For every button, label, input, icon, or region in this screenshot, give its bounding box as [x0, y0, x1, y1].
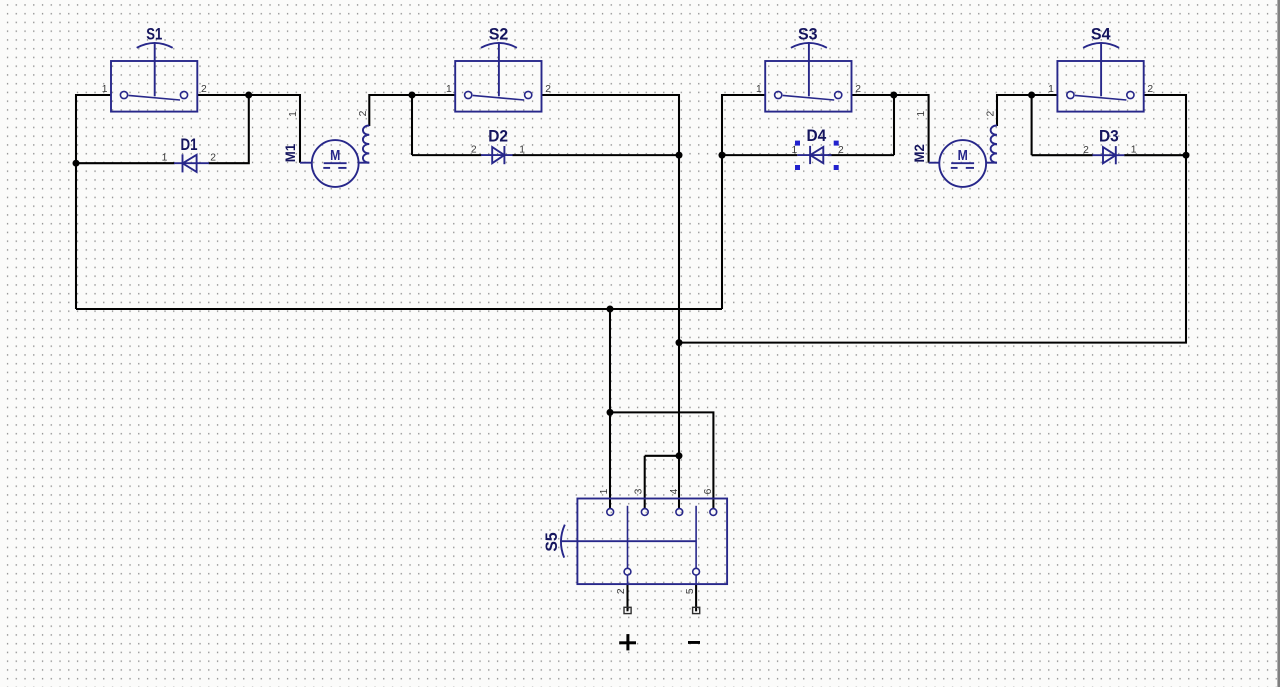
junction [607, 306, 614, 313]
junction [607, 409, 614, 416]
wire [1032, 154, 1093, 156]
switch S4 [1057, 43, 1143, 112]
wire [541, 95, 679, 155]
junction [1183, 152, 1190, 159]
switch S5 [561, 499, 727, 585]
wire [609, 412, 611, 508]
wire [644, 456, 646, 509]
wire [678, 343, 680, 456]
svg-text:6: 6 [703, 488, 714, 494]
wire [1031, 95, 1033, 155]
wire [76, 308, 722, 310]
svg-text:1: 1 [791, 145, 797, 156]
svg-text:2: 2 [358, 110, 369, 116]
svg-text:1: 1 [519, 145, 525, 156]
svg-text:2: 2 [855, 84, 861, 95]
svg-text:1: 1 [162, 153, 168, 164]
svg-text:2: 2 [1083, 145, 1089, 156]
svg-text:4: 4 [669, 488, 680, 494]
wire [828, 154, 894, 156]
motor M2 [929, 126, 997, 187]
junction [719, 152, 726, 159]
wire [76, 162, 175, 164]
wire [626, 584, 628, 611]
motor M1 [300, 126, 369, 187]
wire [679, 95, 1186, 343]
svg-text:2: 2 [545, 84, 551, 95]
svg-text:S3: S3 [798, 25, 818, 44]
junction [409, 92, 416, 99]
wire [722, 95, 765, 155]
svg-text:S4: S4 [1091, 25, 1111, 44]
wire [369, 95, 455, 126]
wire [722, 154, 797, 156]
junction [1028, 92, 1035, 99]
svg-text:2: 2 [471, 145, 477, 156]
svg-text:M: M [330, 148, 340, 164]
svg-text:1: 1 [599, 488, 610, 494]
svg-text:3: 3 [634, 488, 645, 494]
wire [678, 155, 680, 343]
junction [73, 160, 80, 167]
wire [197, 95, 300, 163]
wire [75, 163, 77, 309]
wire [645, 455, 679, 457]
junction [676, 339, 683, 346]
svg-text:S1: S1 [146, 25, 162, 44]
wire [412, 154, 482, 156]
svg-text:S5: S5 [542, 532, 561, 551]
wire [678, 456, 680, 509]
wire [893, 95, 895, 155]
svg-text:M2: M2 [912, 144, 927, 162]
wire [512, 154, 679, 156]
wire [411, 95, 413, 155]
svg-text:1: 1 [102, 84, 108, 95]
wire [721, 155, 723, 309]
junction [676, 452, 683, 459]
svg-text:S2: S2 [489, 25, 509, 44]
svg-text:M: M [958, 148, 968, 164]
svg-text:D3: D3 [1099, 126, 1119, 145]
diode D1 [174, 154, 209, 172]
wire [209, 95, 249, 163]
diode D3 [1092, 146, 1124, 164]
svg-text:1: 1 [446, 84, 452, 95]
svg-text:D4: D4 [807, 126, 827, 145]
diode D2 [481, 146, 513, 164]
svg-text:2: 2 [838, 145, 844, 156]
switch S1 [111, 43, 197, 112]
svg-text:D2: D2 [488, 126, 508, 145]
wire [76, 95, 111, 163]
junction [890, 92, 897, 99]
switch S2 [455, 43, 541, 112]
wire [1124, 154, 1186, 156]
wire [997, 95, 1057, 126]
svg-text:1: 1 [1048, 84, 1054, 95]
wire [610, 412, 713, 508]
wire [695, 584, 697, 611]
wire [852, 95, 929, 163]
svg-text:1: 1 [1131, 145, 1137, 156]
terminal [693, 607, 700, 613]
svg-text:5: 5 [685, 588, 696, 594]
net label + [619, 634, 636, 650]
svg-text:1: 1 [916, 111, 927, 117]
wire [609, 309, 611, 412]
svg-text:2: 2 [210, 153, 216, 164]
junction [245, 92, 252, 99]
svg-text:1: 1 [756, 84, 762, 95]
svg-text:M1: M1 [283, 143, 298, 162]
selection handles [795, 141, 839, 170]
svg-text:2: 2 [1147, 84, 1153, 95]
svg-text:2: 2 [616, 588, 627, 594]
net label - [688, 641, 700, 644]
junction [676, 152, 683, 159]
svg-text:1: 1 [288, 111, 299, 117]
svg-text:2: 2 [201, 84, 207, 95]
terminal [624, 607, 631, 613]
svg-text:D1: D1 [181, 135, 198, 154]
svg-text:2: 2 [986, 110, 997, 116]
switch S3 [765, 43, 851, 112]
diode D4 [797, 146, 831, 164]
